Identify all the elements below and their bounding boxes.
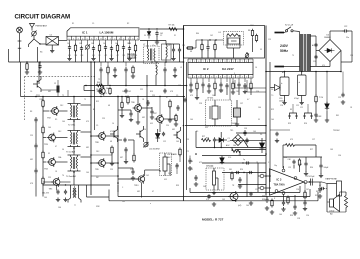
svg-text:C27: C27 [312,139,315,141]
ground under R23 [168,118,172,122]
svg-text:104: 104 [44,197,47,199]
wire rail x270 [269,62,271,182]
svg-text:7.5: 7.5 [271,95,273,97]
capacitor C3 under IC1 pin1 [68,45,71,51]
svg-text:R38: R38 [262,199,265,201]
wire feedback down [294,195,296,204]
wire bus y85 [84,85,187,87]
wire left rail down [20,62,22,97]
svg-text:IC 3: IC 3 [277,178,282,182]
wire IC2 bend c right [247,91,266,93]
svg-text:C10: C10 [143,129,146,131]
capacitor C50 zobel [303,200,306,206]
wire TR13 emitter down [141,183,143,198]
wire R16-R17 [42,107,44,128]
svg-text:T2: T2 [84,99,86,101]
wire down to amp inputs [257,163,259,192]
wire C20 down [238,88,240,96]
ground under C15 [189,88,193,92]
svg-text:5: 5 [246,77,247,79]
wire IC2 pin down 4 [214,78,216,82]
resistor R2 under IC1 [74,43,76,52]
junction dot 183.5,125.5 [183,125,185,127]
svg-text:56: 56 [62,149,64,151]
svg-text:R27: R27 [202,136,205,138]
wire L5 to bus [165,58,167,63]
capacitor C10 under IC1 [128,46,131,52]
stub C57 [151,107,153,110]
junction dot 118,96.5 [117,96,119,98]
wire L8 bottom link [227,47,240,49]
wire IC2 pin bend b [234,80,236,88]
IC2 bottom pin row [188,75,253,79]
wire R2 to bus [75,51,77,62]
mains plug pin bottom [275,66,285,68]
resistor R44 on bus y85 [97,84,104,87]
capacitor C42 on loop [207,194,210,199]
wire IC2 pin down 1 [196,78,198,82]
wire R24 down [315,102,317,112]
wire TR5 base [43,181,53,183]
capacitor C19 under IC2 [225,83,228,89]
transistor TR6 [133,103,142,113]
ground under C21 [243,90,247,94]
resistor R27 zigzag [202,139,211,142]
junction [137,96,138,97]
diode D10 filled [156,129,161,142]
svg-text:100: 100 [271,119,274,121]
switch section S3a staple [288,113,298,119]
stub L8 left [226,45,228,48]
svg-text:TR5: TR5 [230,130,233,132]
svg-text:104: 104 [212,95,215,97]
ground under C41 [238,184,242,188]
svg-text:C15: C15 [268,39,271,41]
wire rail x186 [186,62,188,190]
wire C4 to bus [81,51,83,62]
wire to C59 [118,139,122,141]
svg-text:682: 682 [172,129,175,131]
wire bus to TR7 [159,97,161,116]
resistor R6 on bus [26,62,28,71]
svg-text:T7: T7 [74,205,76,207]
wire IC1 pin 3 down [81,40,83,45]
diode D8 filled [260,138,265,153]
wire C59 right [128,139,134,141]
svg-text:473: 473 [290,139,293,141]
junction at D1 [148,28,149,29]
capacitor C58 [183,98,186,103]
svg-text:C21: C21 [300,107,303,109]
svg-text:682: 682 [137,191,140,193]
wire rail y163 [202,162,266,164]
wire link TR6 area [118,109,131,111]
ground under C32 [113,74,117,78]
wire y155 link [91,154,112,156]
wire R42 up [57,80,59,86]
svg-text:T2: T2 [62,95,64,97]
wire bubble2 to IC3 [264,187,271,189]
ground under C12 [171,57,175,61]
capacitor C40 [194,175,197,181]
svg-text:C50: C50 [306,215,309,217]
power switch S2 [285,27,293,32]
capacitor C70 on y172 [248,171,252,174]
wire T7 right down [86,185,88,197]
detector diamond with cross [233,135,249,148]
svg-text:1: 1 [69,39,70,41]
svg-text:473: 473 [86,121,89,123]
svg-text:C21: C21 [296,105,299,107]
wire bus y96 [21,96,186,98]
svg-text:5: 5 [233,61,234,63]
wire C1 down [51,45,53,49]
capacitor C20 under IC2 [237,82,240,88]
capacitor C29 [34,143,37,149]
svg-text:LA 1560M: LA 1560M [100,31,114,35]
capacitor C41 [238,177,241,183]
svg-text:D5a: D5a [346,37,349,39]
ground under C67 [235,122,239,126]
resistor R28 [231,171,233,180]
wire rail x118 [117,97,119,193]
svg-text:47: 47 [55,146,57,148]
wire C19 down [226,89,228,96]
wire to L5 [165,41,167,45]
wire IC2 pin down 3 [208,78,210,82]
transistor TR16 bars style center [136,126,144,142]
svg-text:TR13: TR13 [134,185,138,187]
wire C3 to bus [69,50,71,57]
IF transformer T3 1st AM [68,131,81,147]
capacitor C63 [304,161,307,166]
svg-text:C37: C37 [240,103,243,105]
transistor TR8 [97,131,106,141]
electrolytic capacitor C23 can [280,72,289,102]
ground under R25 [110,162,114,166]
wire plug to S2 [284,32,285,34]
svg-text:C47: C47 [306,189,309,191]
svg-text:TBA 790A: TBA 790A [274,184,285,187]
svg-text:C30: C30 [338,155,341,157]
ground under C3 [67,57,71,61]
ground under C10 [127,57,131,61]
svg-text:16: 16 [255,67,257,69]
wire C63 down [305,167,307,173]
wire x247 down [246,173,248,198]
junction dot 266,125.5 [265,125,267,127]
stub R17 right [239,151,241,156]
wire IC1 pin 4 down [87,40,89,45]
wire R43 down [179,155,181,162]
svg-text:1: 1 [190,77,191,79]
dashed AM block border top [25,76,96,78]
wire to R26 [133,140,135,154]
capacitor C22 top right [343,29,349,32]
stub speaker left [327,201,330,203]
wire T2 right top [81,104,92,106]
capacitor C56 [129,111,132,117]
diode D9 [220,156,224,164]
wire C16 down [202,88,204,94]
ground under C18 [219,88,223,92]
stub C77 [189,156,191,159]
capacitor C38 [124,147,127,153]
wire IC1 output to shield box [140,28,184,30]
svg-text:R39: R39 [176,185,179,187]
svg-text:IC 1: IC 1 [82,31,88,35]
wire T2 to T3 [73,120,75,131]
capacitor C17 under IC2 [207,83,210,89]
IC2 body rect [188,63,253,75]
svg-text:R16: R16 [40,99,43,101]
wire secondary top [310,35,316,37]
svg-text:C8: C8 [96,89,98,91]
wire R25 down [111,153,113,162]
wire C8 down [111,51,113,57]
junction dot 147,85.5 [146,85,148,87]
stub horn top [339,192,341,195]
svg-text:C11: C11 [130,169,133,171]
wire R37 top [345,192,347,196]
stub C56 [130,110,132,112]
resistor R14 under IC2 [250,81,252,90]
svg-text:102: 102 [210,35,213,37]
junction L8b [209,39,210,40]
volume control dashed box [206,168,224,190]
wire L5 top link [166,43,180,45]
junction dot 157,62 [156,61,158,63]
capacitor C48 feedback [293,204,296,210]
junction dot 118,183 [117,182,119,184]
junction dot 186.5,85.5 [186,85,188,87]
junction [214,147,215,148]
ground under C24 [300,101,304,105]
resistor R16 [42,99,44,108]
wire TR8 base [91,135,99,137]
earphone jack [327,181,342,196]
wire R5 to bus [135,51,137,62]
svg-text:L10 455KHZ: L10 455KHZ [149,149,160,151]
wire bus to comp x126 [125,62,127,67]
svg-text:104: 104 [67,43,70,45]
wire C10 down [129,51,131,57]
wire TR5 emitter down [56,185,58,190]
svg-text:50KΩ(B): 50KΩ(B) [127,58,136,60]
svg-text:5: 5 [194,61,195,63]
svg-text:223: 223 [48,177,51,179]
svg-text:S3: S3 [290,109,292,111]
svg-text:C43: C43 [222,199,225,201]
svg-text:7: 7 [216,77,217,79]
oscillator coil L8 dashed can [224,32,244,46]
capacitor C13 [178,47,181,53]
svg-text:473: 473 [110,131,113,133]
svg-text:3: 3 [237,77,238,79]
svg-text:3: 3 [198,77,199,79]
junction dot 91,155 [90,154,92,156]
wire IC2 pin down 8 [238,78,240,82]
svg-text:4: 4 [190,61,191,63]
svg-text:4.7: 4.7 [319,185,321,187]
IC3 input pin bubble 2 [260,186,264,190]
junction [65,184,66,185]
capacitor C34 [163,67,166,73]
wire down right [315,145,317,157]
wire y90 stub [84,90,95,92]
ground under C25 [314,118,318,122]
capacitor C45 [64,189,67,194]
coil L5 [166,45,167,58]
wire T1 to bus [154,61,156,63]
svg-text:203: 203 [135,55,138,57]
svg-text:1000µF: 1000µF [279,101,286,103]
wire R23 down [169,107,171,118]
stub C46 down [293,165,295,169]
svg-text:104: 104 [86,172,89,174]
wire output to zobel [304,182,306,190]
wire IC1 pin 8 down [111,40,113,45]
wire base TR3 [43,137,46,139]
bridge rectifier D5 diamond [319,40,341,62]
ground under C8 [109,57,113,61]
stub C63 [305,157,307,162]
capacitor C30 [34,168,37,174]
svg-text:224: 224 [166,125,169,127]
svg-text:123: 123 [288,167,291,169]
transistor TR7 [155,114,164,124]
resistor R22 [127,95,129,104]
svg-text:223: 223 [152,95,155,97]
ground under C64 [319,174,323,178]
svg-text:240: 240 [106,88,109,90]
svg-text:C51: C51 [350,55,353,57]
svg-text:104: 104 [79,43,82,45]
wire IC1 pin 10 down [123,40,125,45]
junction dot 183.5,62 [183,61,185,63]
wire C13a down [207,50,209,58]
svg-text:10: 10 [112,123,114,125]
svg-text:C9: C9 [176,95,178,97]
junction dot 74,96.5 [73,96,75,98]
svg-text:222: 222 [140,89,143,91]
resistor R36 left [271,198,273,207]
wire IC3 output [307,181,322,183]
resistor R10 in shield box [186,47,193,49]
capacitor C2a [155,31,158,37]
svg-text:B1: B1 [93,109,95,111]
junction in shield box [246,52,247,53]
wire left shield rail down [183,26,185,202]
loudspeaker symbol [330,195,340,212]
wire to L10 area [145,169,160,171]
resistor R35 zigzag [286,144,295,147]
stub L8 right [239,45,241,48]
loop antenna symbol [17,27,23,49]
wire right edge to bridge E rail [341,61,352,63]
junction [221,162,222,163]
wire TR6 collector right [141,107,152,109]
wire into T1 [147,44,149,49]
wire TR9 base [91,162,99,164]
mains plug pin top [275,32,285,34]
left cluster in shield box [186,40,224,48]
wire IC2 pin down 5 [220,78,222,82]
wire right edge down [351,31,353,62]
ground under R13 [231,90,235,94]
wire L8 right leg [239,35,241,45]
wire down to IC3 top [282,145,284,168]
trimmer circle mid [144,142,149,147]
junction dot 126,85.5 [125,85,127,87]
stub C76 right [326,188,327,190]
wire C13 to bus [179,53,181,63]
svg-text:X1: X1 [174,35,176,37]
wire T4 right top [81,156,92,158]
wire T4 down to bus y185 [73,171,75,185]
junction dot 122,96.5 [121,96,123,98]
junction dot 101,85.5 [100,85,102,87]
capacitor C8 under IC1 [110,46,113,52]
wire R33 down [121,108,123,114]
ground under R34 [174,122,178,126]
stub R29 down [299,166,301,172]
svg-text:47: 47 [166,97,168,99]
svg-text:R31: R31 [315,195,318,197]
svg-text:334: 334 [229,169,232,171]
svg-text:223: 223 [102,118,105,120]
wire loop1 right end up [299,186,301,193]
ground under C40 [194,182,198,186]
wire TR4 to T4 [55,161,67,163]
svg-text:(x2): (x2) [238,205,242,207]
svg-text:L5: L5 [168,45,170,47]
svg-text:68: 68 [110,141,112,143]
wire TR7 collector right [163,118,176,120]
svg-text:10k: 10k [233,145,236,147]
wire bus to C11 [39,62,41,64]
wire C34 down [164,73,166,86]
svg-text:203: 203 [182,45,185,47]
capacitor C75 [175,163,178,169]
svg-text:TR6: TR6 [131,102,135,104]
capacitor C77 [188,158,191,164]
IC1 pin number row [67,36,139,40]
transistor TR4 [47,157,56,167]
junction dot 266,71.5 [265,71,267,73]
junction [90,85,91,86]
wire R19 down [42,184,44,197]
svg-text:EARPHONE: EARPHONE [326,178,338,181]
stub R34 [175,114,177,116]
svg-text:473: 473 [206,199,209,201]
wire secondary bottom to bridge S [310,66,330,68]
capacitor C44 [56,189,59,194]
wire IC1 pin 12 down [135,40,137,45]
wire R35 right [295,144,317,146]
svg-text:C18: C18 [313,61,316,63]
stub C13a [207,40,209,45]
resistor R42 dark [57,86,60,93]
wire loop3 right end up [317,192,319,201]
junction [221,147,222,148]
svg-text:682: 682 [142,117,145,119]
svg-text:C5: C5 [92,23,94,25]
svg-text:223: 223 [30,135,33,137]
wire C7 to bus [105,50,107,62]
svg-text:C13: C13 [186,139,189,141]
resistor R34 [175,114,177,123]
